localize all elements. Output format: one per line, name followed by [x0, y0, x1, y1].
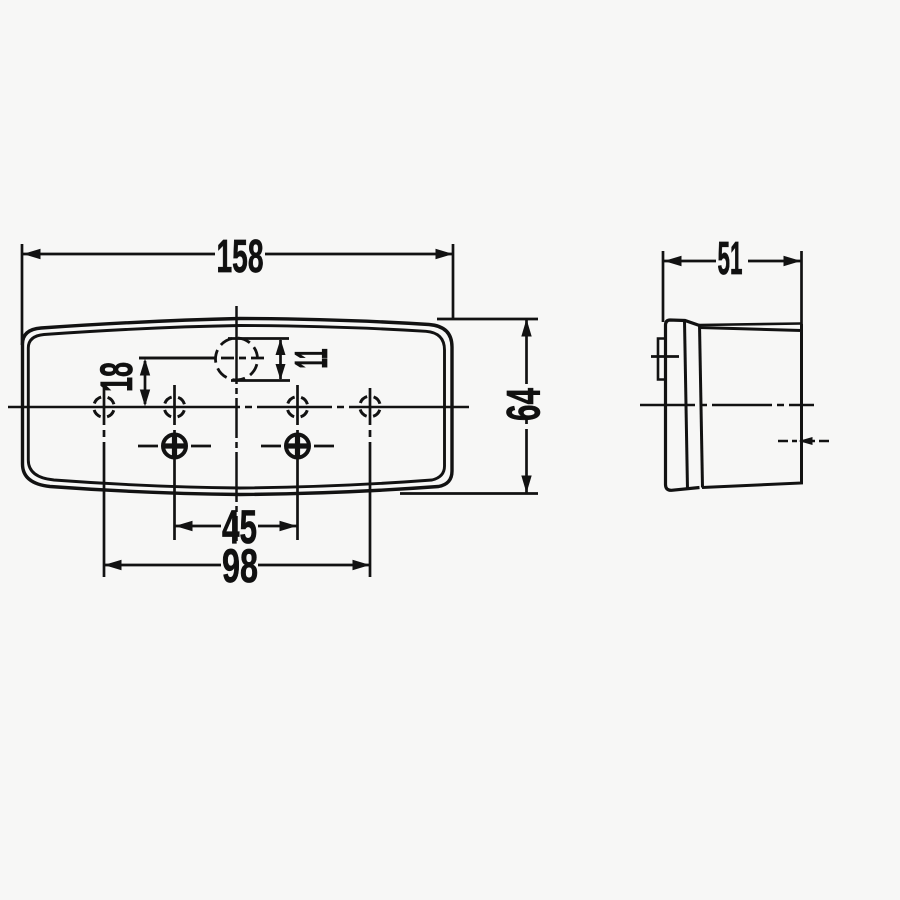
dimension 45 — [175, 521, 298, 531]
dimension 18 — [139, 358, 216, 407]
dimension 158 line — [23, 249, 453, 259]
dimension 51 — [664, 256, 801, 266]
dashed bulb circle top center — [216, 338, 258, 380]
bulb circle horizontal centerline — [139, 357, 269, 360]
side view lens outline — [666, 320, 700, 490]
side view lens inner line 2 — [700, 325, 703, 488]
centerline through hole x=298 — [296, 385, 299, 540]
vertical centerline through lamp center — [235, 306, 238, 541]
centerline through hole x=370 — [369, 388, 372, 577]
small mounting hole 3 (dashed circle) — [287, 397, 308, 418]
dimension 158 extension line right — [452, 244, 455, 320]
lamp body outer outline (front view) — [23, 319, 453, 495]
svg-text:158: 158 — [217, 230, 264, 282]
centerline through hole x=104 — [103, 388, 106, 577]
svg-text:18: 18 — [91, 362, 142, 392]
svg-text:64: 64 — [497, 388, 550, 421]
screw hole right (bold circle with cross) — [261, 434, 334, 459]
svg-text:98: 98 — [222, 539, 258, 592]
tab centerline cross — [651, 355, 679, 358]
centerline through hole x=175 — [173, 385, 176, 540]
small mounting hole 2 (dashed circle) — [164, 397, 185, 418]
horizontal centerline through mounting holes — [8, 406, 473, 409]
dimension 51 extension right — [800, 251, 803, 327]
side view horizontal centerline — [640, 404, 814, 407]
side view bulb axis arrow — [778, 437, 832, 445]
dimension 98 — [104, 560, 370, 570]
side view mounting tab — [658, 339, 666, 380]
dimension 64 — [400, 319, 538, 494]
svg-text:51: 51 — [718, 232, 743, 284]
lamp body inner outline (front view) — [28, 326, 444, 489]
side view housing outline — [700, 324, 802, 488]
dimension 158 extension line left — [21, 244, 24, 345]
screw hole left (bold circle with cross) — [138, 434, 211, 459]
side view housing top edge (upper line) — [699, 324, 801, 326]
dimension 51 extension left — [662, 251, 665, 322]
svg-text:11: 11 — [285, 349, 337, 369]
small mounting hole 1 (dashed circle) — [94, 397, 115, 418]
side view lens inner line 1 — [685, 321, 688, 490]
dimension 11 — [228, 339, 290, 381]
small mounting hole 4 (dashed circle) — [360, 396, 381, 417]
